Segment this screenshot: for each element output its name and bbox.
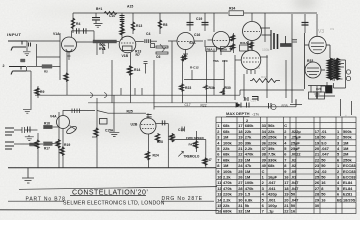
svg-text:EL84: EL84 — [343, 180, 353, 185]
svg-text:U2B: U2B — [131, 123, 138, 127]
svg-text:TREMOLO: TREMOLO — [183, 155, 199, 159]
svg-text:39k: 39k — [268, 146, 275, 151]
svg-text:R35: R35 — [282, 104, 288, 108]
svg-text:20: 20 — [284, 197, 288, 202]
svg-text:2: 2 — [3, 64, 5, 68]
svg-text:6.8k: 6.8k — [245, 197, 253, 202]
svg-text:68k: 68k — [223, 129, 230, 134]
svg-text:ECC83: ECC83 — [343, 175, 356, 180]
svg-text:330k: 330k — [268, 157, 277, 162]
svg-text:1M: 1M — [223, 163, 228, 168]
svg-text:R47: R47 — [206, 158, 212, 162]
svg-text:50: 50 — [321, 163, 325, 168]
svg-text:7: 7 — [284, 157, 286, 162]
svg-text:CONSTELLATION’20’: CONSTELLATION’20’ — [72, 190, 148, 197]
svg-text:22k: 22k — [223, 203, 230, 208]
svg-text:SELMER ELECTRONICS LTD, LONDON: SELMER ELECTRONICS LTD, LONDON — [63, 201, 165, 207]
svg-text:25µF: 25µF — [291, 146, 301, 151]
svg-text:.047: .047 — [268, 180, 276, 185]
svg-text:R32: R32 — [261, 75, 267, 79]
svg-text:100µ: 100µ — [268, 203, 277, 208]
svg-text:C19: C19 — [196, 17, 202, 21]
svg-text:FWD SPEED: FWD SPEED — [186, 136, 205, 140]
svg-text:V1B: V1B — [122, 54, 129, 58]
svg-text:.001: .001 — [268, 197, 276, 202]
svg-text:.1µ: .1µ — [268, 209, 274, 214]
svg-text:.047: .047 — [321, 152, 329, 157]
svg-text:R41: R41 — [189, 143, 195, 147]
svg-text:50: 50 — [321, 135, 325, 140]
svg-text:1M: 1M — [223, 135, 228, 140]
svg-text:250k: 250k — [343, 157, 352, 162]
svg-text:R14: R14 — [134, 68, 140, 72]
svg-text:1M: 1M — [245, 169, 250, 174]
svg-text:R8: R8 — [163, 23, 167, 27]
svg-text:R8A: R8A — [207, 47, 214, 51]
svg-text:50: 50 — [321, 175, 325, 180]
svg-text:R18: R18 — [44, 121, 50, 125]
svg-text:.25µF: .25µF — [291, 135, 302, 140]
svg-text:500k: 500k — [343, 135, 352, 140]
svg-text:250k: 250k — [268, 135, 277, 140]
svg-text:7.5k: 7.5k — [268, 152, 276, 157]
svg-text:68k: 68k — [223, 123, 230, 128]
svg-text:56k: 56k — [268, 123, 275, 128]
svg-text:C: C — [262, 169, 265, 174]
svg-text:30: 30 — [315, 203, 319, 208]
svg-text:17: 17 — [284, 180, 288, 185]
svg-text:V5: V5 — [256, 66, 260, 70]
svg-text:B+1: B+1 — [96, 7, 102, 11]
svg-text:C: C — [284, 123, 287, 128]
svg-text:27k: 27k — [245, 135, 252, 140]
svg-text:100k: 100k — [223, 169, 232, 174]
svg-text:R4: R4 — [76, 22, 80, 26]
svg-text:EZ81: EZ81 — [343, 192, 353, 197]
svg-text:C17: C17 — [185, 103, 191, 107]
svg-text:1M: 1M — [245, 175, 250, 180]
svg-text:MAX DEPTH: MAX DEPTH — [226, 111, 250, 116]
svg-text:680k: 680k — [245, 123, 254, 128]
svg-text:22k: 22k — [245, 129, 252, 134]
svg-text:1M: 1M — [245, 209, 250, 214]
svg-text:1.5: 1.5 — [245, 192, 251, 197]
svg-text:27: 27 — [238, 180, 242, 185]
svg-text:EL84: EL84 — [343, 186, 353, 191]
svg-text:R24: R24 — [153, 154, 159, 158]
svg-text:R29: R29 — [170, 135, 176, 139]
svg-text:R13: R13 — [136, 24, 142, 28]
svg-text:22k: 22k — [268, 129, 275, 134]
svg-text:470k: 470k — [223, 186, 232, 191]
svg-text:C15A: C15A — [105, 129, 114, 133]
svg-text:R23: R23 — [185, 86, 191, 90]
svg-text:47k: 47k — [245, 163, 252, 168]
svg-text:17: 17 — [238, 123, 242, 128]
svg-text:22k: 22k — [223, 146, 230, 151]
svg-text:PART No B78: PART No B78 — [26, 196, 66, 202]
svg-text:20: 20 — [315, 146, 319, 151]
svg-text:JR: JR — [243, 98, 248, 102]
svg-text:C20: C20 — [316, 87, 322, 91]
svg-text:470k: 470k — [223, 180, 232, 185]
svg-text:DRG No 287E: DRG No 287E — [162, 196, 203, 202]
svg-text:.02: .02 — [291, 157, 297, 162]
svg-text:ECC83: ECC83 — [343, 169, 356, 174]
svg-text:C20: C20 — [222, 59, 228, 63]
svg-text:V3: V3 — [318, 29, 324, 35]
svg-text:68k: 68k — [268, 163, 275, 168]
svg-text:.041: .041 — [268, 186, 276, 191]
svg-text:C15: C15 — [178, 128, 184, 132]
svg-text:R2: R2 — [44, 70, 48, 74]
svg-text:R28: R28 — [157, 140, 163, 144]
svg-text:1M: 1M — [245, 157, 250, 162]
svg-text:39k: 39k — [245, 140, 252, 145]
svg-text:17: 17 — [315, 129, 319, 134]
svg-text:2.2k: 2.2k — [245, 146, 253, 151]
svg-text:27: 27 — [315, 186, 319, 191]
svg-text:50: 50 — [291, 203, 295, 208]
svg-text:220k: 220k — [223, 192, 232, 197]
svg-text:R·C12: R·C12 — [190, 66, 199, 70]
svg-text:7: 7 — [217, 157, 219, 162]
svg-text:.02: .02 — [321, 169, 327, 174]
svg-text:25µF: 25µF — [291, 140, 301, 145]
svg-text:220k: 220k — [268, 140, 277, 145]
svg-text:16µF: 16µF — [268, 175, 278, 180]
svg-text:V8A: V8A — [213, 59, 220, 63]
svg-text:-17v: -17v — [252, 113, 259, 117]
svg-text:.05: .05 — [291, 169, 297, 174]
svg-text:1M: 1M — [343, 146, 348, 151]
svg-text:B1: B1 — [337, 197, 343, 202]
svg-text:.01: .01 — [291, 175, 297, 180]
svg-text:100k: 100k — [245, 180, 254, 185]
svg-text:R33: R33 — [307, 59, 313, 63]
svg-text:.047: .047 — [321, 146, 329, 151]
svg-text:.01: .01 — [321, 129, 327, 134]
svg-text:470k: 470k — [245, 186, 254, 191]
svg-text:470k: 470k — [245, 152, 254, 157]
svg-text:.047: .047 — [291, 186, 299, 191]
svg-text:+.: +. — [345, 114, 348, 118]
svg-text:.047: .047 — [291, 180, 299, 185]
svg-text:A15: A15 — [127, 5, 133, 9]
svg-text:500k: 500k — [343, 129, 352, 134]
svg-text:C4: C4 — [146, 32, 150, 36]
svg-text:420p: 420p — [268, 192, 277, 197]
svg-text:V2A: V2A — [189, 41, 196, 45]
svg-text:.0022: .0022 — [291, 152, 302, 157]
svg-text:18/20S: 18/20S — [343, 197, 356, 202]
svg-text:R9: R9 — [40, 90, 44, 94]
svg-text:C16: C16 — [194, 33, 200, 37]
svg-text:680k: 680k — [223, 209, 232, 214]
svg-text:7: 7 — [262, 209, 264, 214]
svg-text:v.s: v.s — [330, 27, 334, 31]
svg-text:20: 20 — [238, 140, 242, 145]
svg-text:.022µ: .022µ — [291, 129, 302, 134]
svg-text:68k: 68k — [223, 152, 230, 157]
svg-text:C6: C6 — [156, 55, 160, 59]
svg-text:R9A: R9A — [221, 47, 228, 51]
svg-text:R19: R19 — [64, 143, 70, 147]
svg-text:V1A: V1A — [53, 32, 60, 36]
svg-text:68k: 68k — [223, 157, 230, 162]
svg-text:2.2k: 2.2k — [223, 197, 231, 202]
svg-text:50: 50 — [321, 192, 325, 197]
svg-text:ECC83: ECC83 — [343, 163, 356, 168]
svg-text:50: 50 — [291, 192, 295, 197]
svg-text:C19: C19 — [251, 99, 257, 103]
svg-text:30: 30 — [238, 197, 242, 202]
svg-text:R34: R34 — [229, 7, 235, 11]
svg-text:R17: R17 — [44, 147, 50, 151]
svg-text:100k: 100k — [223, 140, 232, 145]
svg-text:37: 37 — [262, 146, 266, 151]
svg-text:.02: .02 — [291, 163, 297, 168]
svg-text:V4A: V4A — [50, 115, 57, 119]
svg-text:R3b: R3b — [209, 86, 215, 90]
svg-text:50: 50 — [321, 157, 325, 162]
svg-text:C10: C10 — [109, 14, 115, 18]
svg-text:2.2k: 2.2k — [223, 175, 231, 180]
svg-text:INPUT: INPUT — [7, 32, 22, 37]
svg-text:R7: R7 — [136, 53, 140, 57]
svg-text:R25: R25 — [127, 110, 133, 114]
svg-text:2M: 2M — [343, 152, 348, 157]
svg-text:R22: R22 — [201, 103, 207, 107]
svg-text:10: 10 — [217, 175, 221, 180]
svg-text:100k: 100k — [262, 48, 270, 52]
svg-text:1M: 1M — [343, 140, 348, 145]
svg-text:.047: .047 — [291, 197, 299, 202]
svg-text:R31A: R31A — [240, 41, 249, 45]
svg-text:RV1: RV1 — [99, 47, 106, 51]
svg-text:9.0: 9.0 — [321, 140, 326, 145]
svg-text:R30: R30 — [225, 86, 231, 90]
svg-text:40: 40 — [262, 163, 266, 168]
